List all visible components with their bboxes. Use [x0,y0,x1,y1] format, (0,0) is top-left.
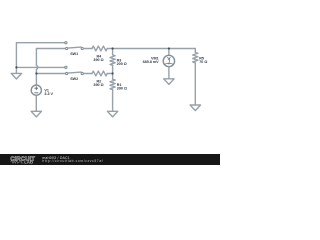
wire V1 bottom to ground [35,95,37,111]
svg-text:SW1: SW1 [70,52,78,56]
wire V1 row to SW2 bottom throw [36,73,65,75]
wire VM1 bottom to ground [168,67,170,79]
wire R4 to node [107,48,112,50]
wire hop over ground row [36,65,37,69]
node junction R4/R3/rail [112,47,114,49]
wire node to R1 [112,74,114,80]
svg-text:SW2: SW2 [70,77,78,81]
node junction at V1 row [35,72,37,74]
svg-text:70 Ω: 70 Ω [199,60,207,64]
resistor R1 zigzag [110,79,115,89]
voltage source V1 circle [31,85,41,95]
resistor R3 zigzag [110,55,115,65]
svg-text:200 Ω: 200 Ω [117,62,127,66]
wire R3 bottom to node [112,65,114,73]
ground below VM1 [164,79,174,85]
svg-text:3.3 V: 3.3 V [44,92,53,96]
VM1 gauge needle [168,60,171,64]
voltmeter VM1 circle [163,55,174,66]
VM1 gauge arc [164,62,173,65]
node junction at ground rail left [15,66,17,68]
VM1 V glyph [168,57,170,59]
switch SW1 lever [68,47,81,48]
switch SW1 common terminal [81,47,83,49]
wire R2 to node [107,73,112,75]
wire VM1 from rail [168,49,170,56]
switch SW2 lever [68,72,81,73]
V1 minus sign [35,92,38,94]
resistor R5 zigzag [193,52,198,62]
watermark text line 2 [42,159,103,163]
switch SW1 throw terminal bottom [66,47,68,49]
svg-text:390 Ω: 390 Ω [93,83,103,87]
wire SW2 common to R2 [83,73,92,75]
switch SW1 throw terminal top [65,42,67,44]
wire SW1 common to R4 [83,48,92,50]
wire V1 top to SW1 bottom throw [36,49,65,66]
wire ground stub G1 [15,67,17,73]
watermark text line 1 [42,156,70,160]
switch SW2 common terminal [81,72,83,74]
svg-text:390 Ω: 390 Ω [93,58,103,62]
V1 plus sign [35,87,38,90]
svg-text:685.8 mV: 685.8 mV [143,60,160,64]
ground below R1 [107,111,117,117]
node junction R2/R3/R1 [112,72,114,74]
wire R1 bottom to ground [112,90,114,112]
switch SW2 throw terminal bottom [66,72,68,74]
wire ground-rail top from left vertical to SW1 top throw [16,43,64,68]
svg-text:LAB: LAB [24,159,33,164]
watermark bar [0,154,220,165]
node junction VM1 tap [168,47,170,49]
ground below V1 [31,111,41,117]
wire R5 bottom to ground [194,63,196,105]
wire ground row to SW2 top throw [16,66,65,68]
wire V1 vertical below hop [35,70,37,86]
svg-text:390 Ω: 390 Ω [117,86,127,90]
wire main rail to R5 corner [113,49,196,53]
wire node to R3 [112,49,114,55]
CircuitLab logo [0,154,45,165]
switch SW2 throw terminal top [65,66,67,68]
ground below R5 [190,105,200,111]
resistor R4 zigzag [92,46,107,51]
ground G1 [11,73,21,79]
resistor R2 zigzag [92,71,107,76]
